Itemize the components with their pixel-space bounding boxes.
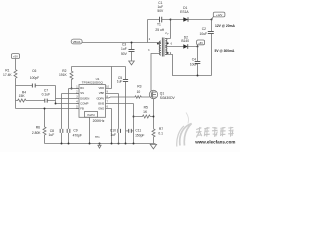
wire COMP pin 4: [56, 103, 80, 105]
svg-text:25 uH: 25 uH: [155, 28, 164, 32]
capacitor C4 10uF: [190, 47, 200, 76]
diode D2 B140: [165, 36, 197, 49]
op-amp U1 TPS40210DGQ (controller IC): [76, 77, 134, 117]
wire +5V to R1: [15, 59, 17, 70]
svg-text:50V: 50V: [121, 52, 128, 56]
svg-text:T1: T1: [157, 23, 161, 27]
svg-text:0.1uF: 0.1uF: [42, 93, 50, 97]
svg-text:R7: R7: [159, 127, 163, 131]
resistor R3 10 (gate): [106, 84, 150, 98]
svg-text:100pF: 100pF: [30, 76, 39, 80]
capacitor C10 1uF (BP bypass): [110, 94, 121, 144]
svg-text:200KHz: 200KHz: [93, 119, 105, 123]
capacitor C6 100pF: [16, 69, 56, 87]
wire secondary top riser: [165, 20, 170, 39]
transformer T1 25uH: [148, 23, 173, 57]
svg-text:VDD: VDD: [99, 86, 105, 90]
svg-text:Q1: Q1: [160, 91, 165, 95]
svg-text:RC: RC: [80, 86, 84, 90]
svg-text:R6: R6: [36, 126, 40, 130]
svg-text:150pF: 150pF: [135, 134, 144, 138]
wire ground rail: [45, 143, 156, 145]
wire primary pin3 to MOSFET drain: [151, 54, 160, 91]
svg-text:R3: R3: [137, 84, 141, 88]
svg-text:C11: C11: [135, 129, 141, 133]
svg-text:FB: FB: [80, 107, 84, 111]
node TP1 test point with ground arrow: [95, 136, 101, 148]
svg-text:10uF: 10uF: [190, 63, 198, 67]
svg-text:C3: C3: [122, 43, 126, 47]
svg-text:5V @ 300mA: 5V @ 300mA: [215, 49, 236, 53]
svg-text:C6: C6: [32, 69, 36, 73]
wire VBIAS to transformer pin 2: [82, 42, 161, 44]
svg-text:R1: R1: [5, 69, 9, 73]
svg-text:www.elecfans.com: www.elecfans.com: [194, 140, 235, 145]
svg-text:10: 10: [137, 90, 141, 94]
wire secondary return rail: [165, 55, 211, 76]
wire FB pin 5: [16, 108, 80, 110]
svg-text:1uF: 1uF: [117, 80, 123, 84]
wire PwPd riser: [89, 117, 91, 143]
capacitor C11 150pF (ISNS filter): [126, 129, 145, 138]
decorative watermark: [177, 113, 192, 147]
svg-text:+5V: +5V: [13, 55, 18, 59]
capacitor C7 0.1uF: [26, 89, 56, 103]
capacitor C3 1uF 50V: [121, 43, 135, 62]
svg-text:SS: SS: [80, 91, 84, 95]
svg-text:C4: C4: [192, 57, 196, 61]
resistor R1 17.4K: [3, 69, 17, 78]
ground below C3: [129, 61, 135, 65]
svg-text:COMP: COMP: [80, 101, 88, 105]
wire VDD rail: [72, 66, 126, 68]
wire SS pin 2: [62, 93, 80, 95]
resistor R5 1K: [134, 106, 154, 118]
transistor Q1 Si3430DV (N-MOSFET): [149, 90, 175, 129]
wire primary bus up to clamp rail: [147, 20, 149, 43]
wire DIS/EN pin 3: [56, 98, 80, 100]
svg-text:+5V: +5V: [198, 41, 203, 45]
wire compensation net vertical: [55, 86, 57, 104]
capacitor C5 1uF: [117, 67, 128, 144]
wire GND pin 6 riser: [111, 109, 113, 144]
wire FB node vertical: [15, 78, 17, 108]
svg-text:TP1: TP1: [95, 136, 100, 139]
svg-text:Si3430DV: Si3430DV: [160, 96, 176, 100]
svg-text:+12V: +12V: [216, 13, 223, 17]
svg-text:C9: C9: [73, 129, 77, 133]
svg-text:470pF: 470pF: [73, 134, 82, 138]
capacitor C8 1uF: [49, 94, 63, 144]
node +5V input label box: [11, 54, 19, 59]
svg-text:B140: B140: [181, 39, 189, 43]
svg-text:VBP: VBP: [99, 91, 105, 95]
capacitor C2 10uF: [200, 20, 214, 76]
svg-text:DIS/EN: DIS/EN: [80, 96, 89, 100]
svg-text:C2: C2: [202, 27, 206, 31]
node junction dot at clamp/secondary: [170, 19, 172, 21]
svg-text:10uF: 10uF: [200, 32, 208, 36]
resistor R4 15K: [16, 90, 27, 102]
svg-text:1uF: 1uF: [49, 133, 55, 137]
svg-text:TPS40210DGQ: TPS40210DGQ: [82, 81, 104, 85]
svg-text:PwPd: PwPd: [87, 113, 95, 117]
svg-text:1uF: 1uF: [121, 47, 127, 51]
svg-text:12V @ 20mA: 12V @ 20mA: [215, 24, 236, 28]
svg-text:VBIAS: VBIAS: [73, 40, 81, 44]
node +5V output label box: [197, 40, 205, 47]
ground at rail right end: [150, 144, 156, 149]
svg-text:2.80K: 2.80K: [32, 131, 41, 135]
svg-text:C10: C10: [110, 129, 116, 133]
svg-text:15K: 15K: [19, 94, 26, 98]
wire RC pin 1: [69, 88, 80, 90]
capacitor C1 (series on clamp rail): [148, 1, 171, 23]
svg-text:0.1: 0.1: [158, 131, 163, 135]
node VBIAS label box: [71, 39, 82, 44]
diode D1 ES1A: [171, 6, 212, 22]
node +12V label box: [212, 12, 225, 19]
wire VDD pin 10 riser: [106, 67, 112, 89]
svg-text:1uF: 1uF: [110, 133, 116, 137]
svg-text:ISNS: ISNS: [98, 101, 104, 105]
wire ISNS pin 7 riser: [133, 104, 135, 144]
svg-text:ES1A: ES1A: [180, 10, 189, 14]
capacitor C9 470pF: [67, 89, 82, 144]
svg-text:GND: GND: [98, 107, 104, 111]
resistor R2 191K: [59, 67, 73, 89]
resistor R6 2.80K: [32, 109, 46, 144]
svg-text:191K: 191K: [59, 73, 68, 77]
resistor R7 0.1 (current sense): [152, 127, 163, 144]
svg-text:GDRV: GDRV: [96, 96, 104, 100]
svg-text:50V: 50V: [157, 9, 164, 13]
svg-text:17.4K: 17.4K: [3, 73, 12, 77]
